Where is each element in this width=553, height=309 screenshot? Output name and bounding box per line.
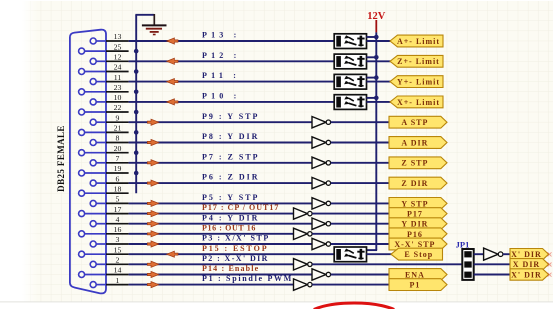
- svg-text:13: 13: [114, 32, 122, 41]
- svg-text:JP1: JP1: [456, 239, 470, 249]
- svg-text:P2 : X-X' DIR: P2 : X-X' DIR: [202, 254, 269, 263]
- svg-text:X+- Limit: X+- Limit: [397, 98, 440, 107]
- svg-text:Z STP: Z STP: [401, 159, 428, 168]
- svg-text:ENA: ENA: [405, 270, 425, 279]
- svg-text:Y DIR: Y DIR: [401, 220, 428, 229]
- svg-text:X-X' STP: X-X' STP: [394, 240, 435, 249]
- svg-text:X DIR: X DIR: [513, 260, 540, 269]
- svg-text:P12 :: P12 :: [202, 51, 241, 60]
- svg-text:P14 : Enable: P14 : Enable: [202, 264, 259, 273]
- svg-text:E Stop: E Stop: [404, 250, 433, 259]
- svg-text:P10 :: P10 :: [202, 92, 241, 101]
- svg-text:P6 : Z DIR: P6 : Z DIR: [202, 173, 260, 182]
- svg-text:21: 21: [114, 124, 122, 133]
- svg-text:12: 12: [114, 53, 122, 62]
- svg-text:P7 : Z STP: P7 : Z STP: [202, 152, 260, 161]
- svg-text:A STP: A STP: [401, 118, 428, 127]
- svg-text:16: 16: [114, 225, 122, 234]
- svg-text:10: 10: [114, 93, 122, 102]
- svg-text:A DIR: A DIR: [401, 138, 428, 147]
- svg-text:5: 5: [116, 195, 120, 204]
- svg-text:19: 19: [114, 164, 122, 173]
- svg-text:9: 9: [116, 113, 120, 122]
- svg-text:P8 : Y DIR: P8 : Y DIR: [202, 132, 259, 141]
- svg-text:7: 7: [116, 154, 120, 163]
- svg-text:Z DIR: Z DIR: [401, 179, 428, 188]
- svg-text:Y+- Limit: Y+- Limit: [397, 78, 440, 87]
- svg-text:15: 15: [114, 245, 122, 254]
- svg-text:P3 : X/X' STP: P3 : X/X' STP: [202, 234, 270, 243]
- svg-text:X' DIR: X' DIR: [511, 250, 542, 259]
- svg-text:DB25 FEMALE: DB25 FEMALE: [56, 125, 66, 192]
- svg-text:A+- Limit: A+- Limit: [397, 37, 440, 46]
- svg-text:P4 : Y DIR: P4 : Y DIR: [202, 213, 259, 222]
- svg-text:Y STP: Y STP: [401, 199, 428, 208]
- svg-text:25: 25: [114, 42, 122, 51]
- svg-text:X' DIR: X' DIR: [511, 270, 542, 279]
- svg-text:P5 : Y STP: P5 : Y STP: [202, 193, 259, 202]
- svg-text:8: 8: [116, 134, 120, 143]
- svg-text:P17: P17: [407, 210, 423, 219]
- svg-text:P15 : ESTOP: P15 : ESTOP: [202, 244, 269, 253]
- svg-text:P16 : OUT 16: P16 : OUT 16: [202, 223, 256, 232]
- svg-text:3: 3: [116, 235, 120, 244]
- svg-text:4: 4: [116, 215, 120, 224]
- svg-text:20: 20: [114, 144, 122, 153]
- svg-text:24: 24: [114, 63, 122, 72]
- svg-text:Z+- Limit: Z+- Limit: [397, 57, 440, 66]
- svg-text:6: 6: [116, 174, 120, 183]
- svg-text:P13 :: P13 :: [202, 31, 241, 40]
- svg-text:P17 : CP / OUT17: P17 : CP / OUT17: [202, 203, 279, 212]
- svg-text:P16: P16: [407, 230, 423, 239]
- svg-text:17: 17: [114, 205, 122, 214]
- svg-text:22: 22: [114, 103, 122, 112]
- svg-text:P1: P1: [409, 281, 420, 290]
- svg-text:P11 :: P11 :: [202, 71, 240, 80]
- svg-text:11: 11: [114, 73, 122, 82]
- svg-text:P1 : Spindle PWM: P1 : Spindle PWM: [202, 274, 293, 283]
- svg-text:23: 23: [114, 83, 122, 92]
- svg-text:14: 14: [114, 266, 122, 275]
- svg-text:1: 1: [116, 276, 120, 285]
- svg-text:P9 : Y STP: P9 : Y STP: [202, 112, 259, 121]
- svg-text:18: 18: [114, 184, 122, 193]
- svg-text:2: 2: [116, 256, 120, 265]
